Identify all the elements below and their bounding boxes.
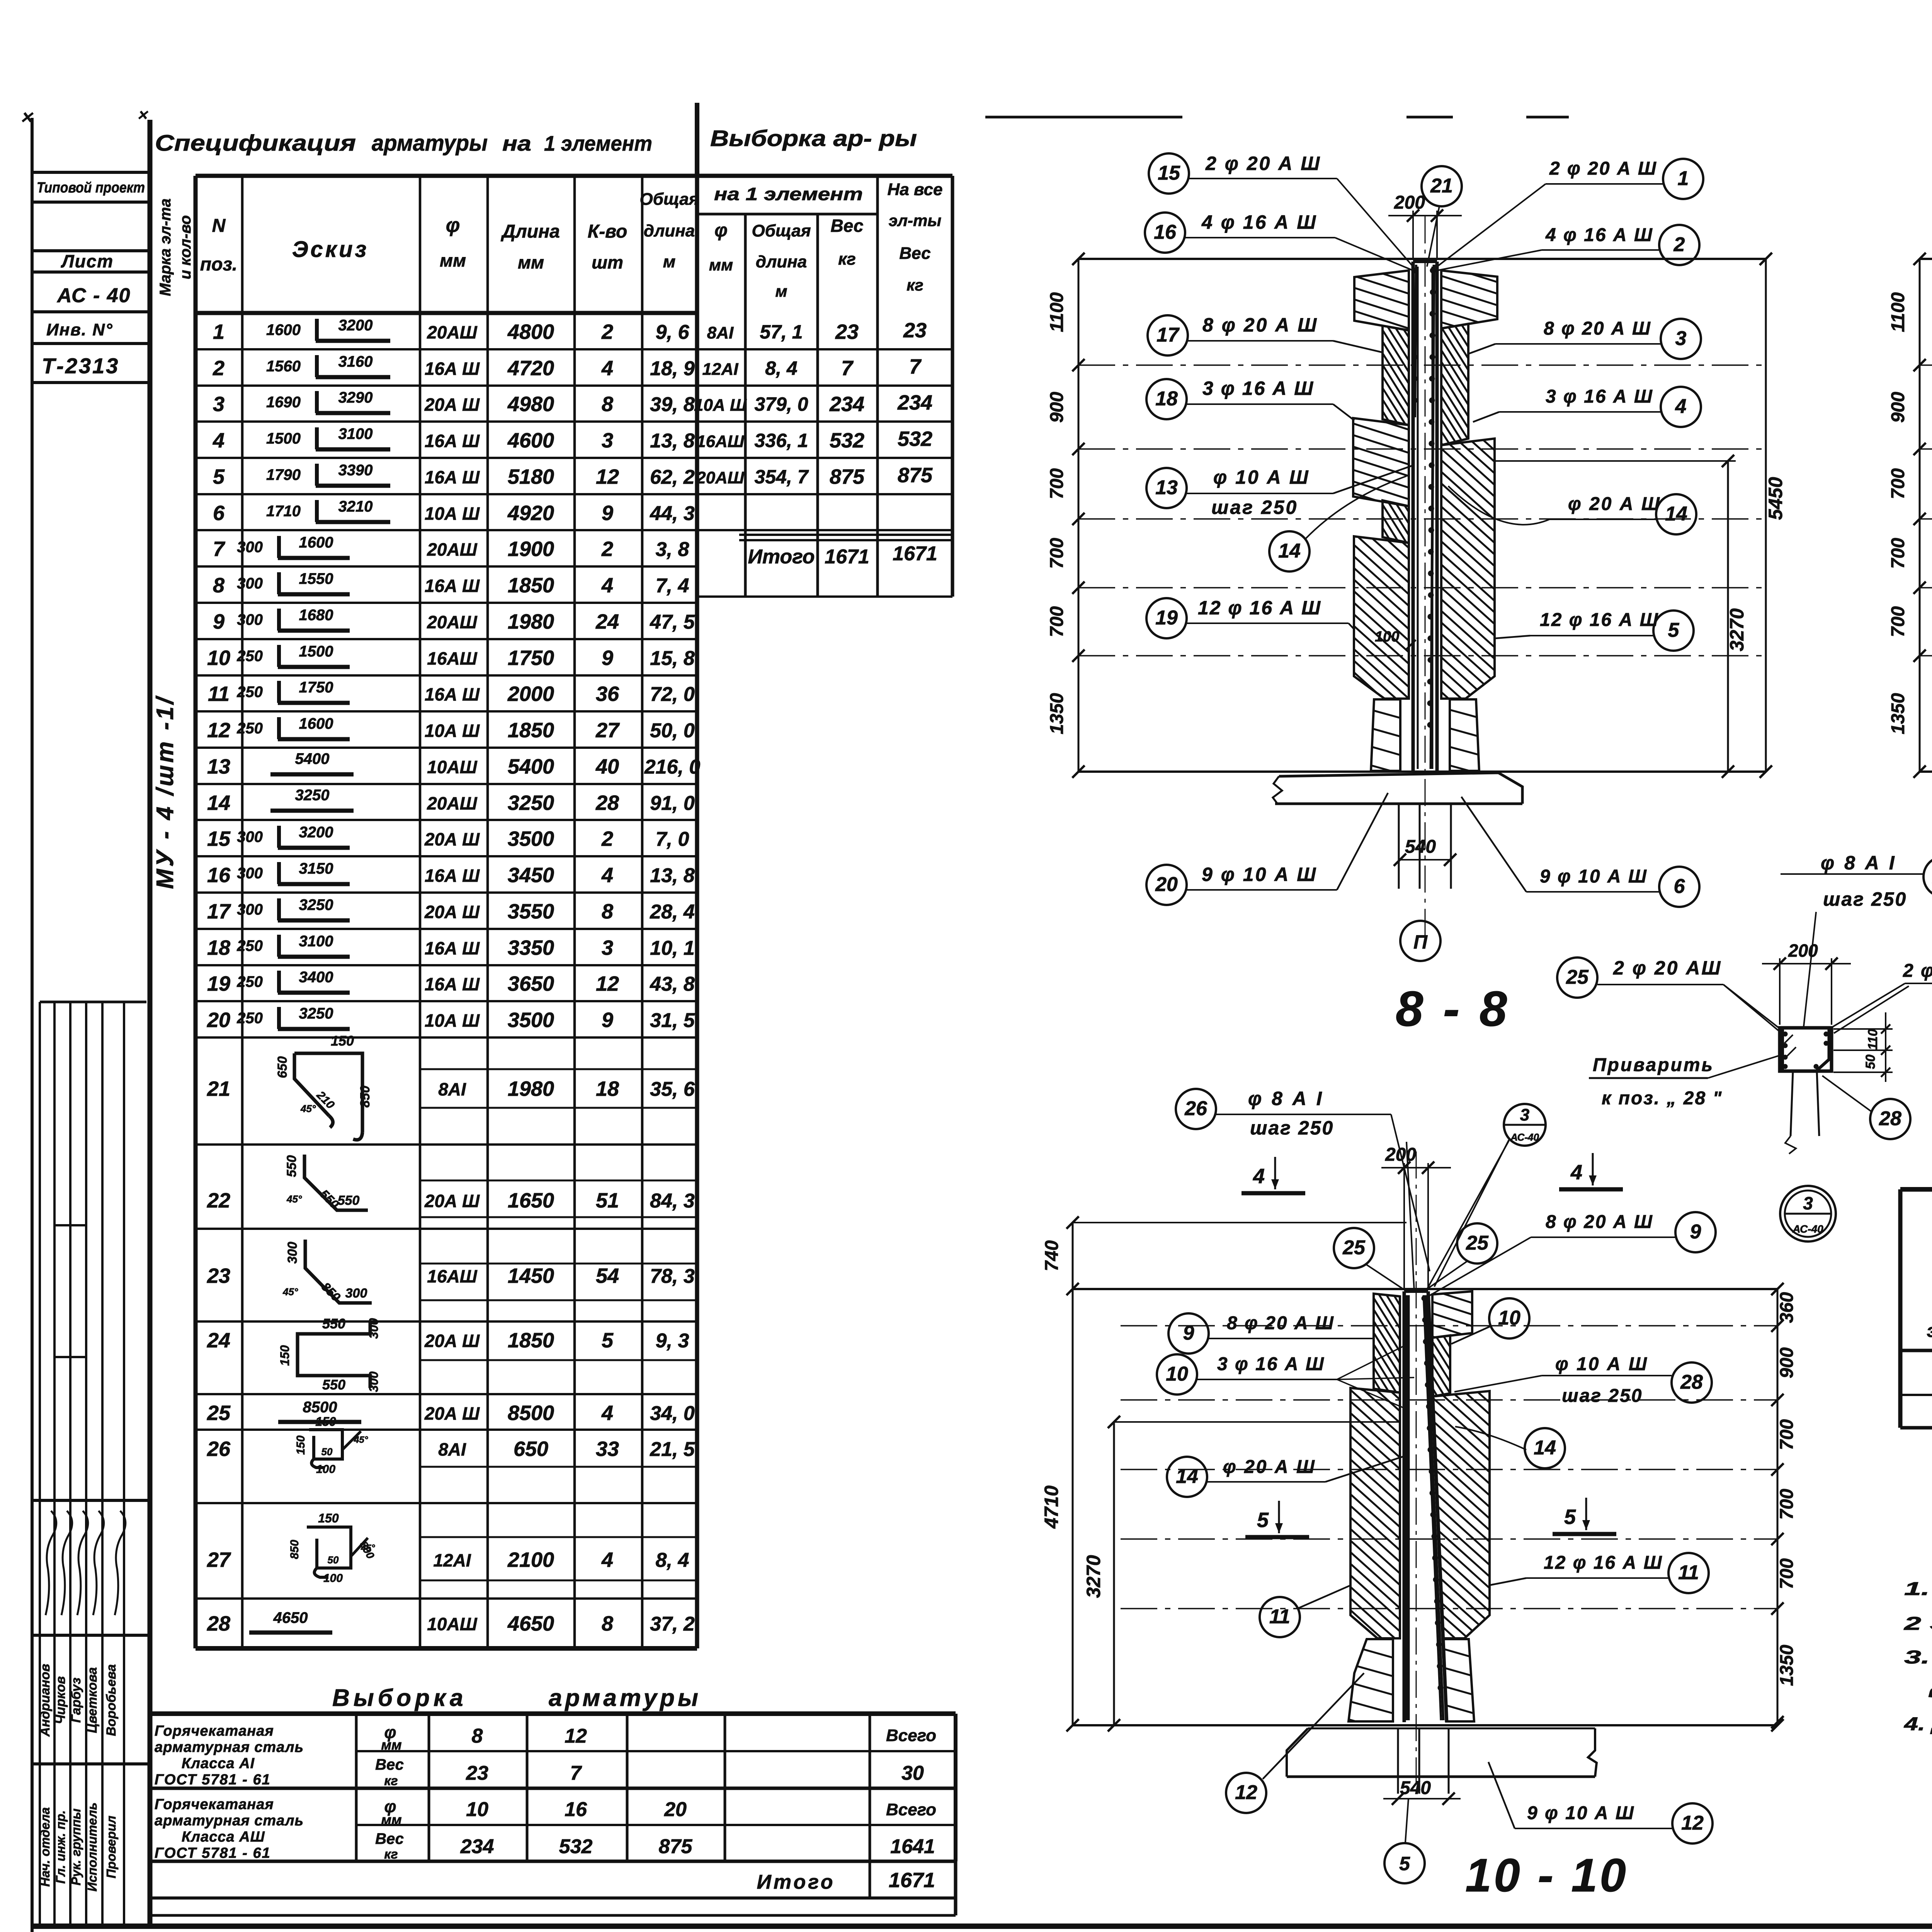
dim 200 weld [1779, 958, 1781, 1025]
svg-text:51: 51 [596, 1189, 619, 1212]
dim 3270 right [1727, 461, 1729, 772]
svg-text:кг: кг [906, 276, 923, 294]
svg-text:φ: φ [446, 214, 460, 236]
svg-text:550: 550 [338, 1193, 360, 1208]
svg-text:27: 27 [595, 719, 620, 742]
svg-text:9 φ 10 А Ш: 9 φ 10 А Ш [1527, 1803, 1635, 1823]
svg-text:532: 532 [830, 429, 864, 452]
svg-text:Класса АI: Класса АI [182, 1755, 255, 1772]
svg-text:18, 9: 18, 9 [650, 357, 695, 380]
svg-text:кг: кг [384, 1774, 398, 1788]
svg-text:16: 16 [207, 864, 231, 887]
svg-text:шт: шт [592, 252, 623, 272]
svg-text:Андрианов: Андрианов [38, 1664, 53, 1737]
svg-text:Всего: Всего [886, 1726, 936, 1745]
svg-text:Класса АШ: Класса АШ [182, 1829, 265, 1845]
svg-text:φ 10 А Ш: φ 10 А Ш [1555, 1354, 1648, 1374]
svg-text:4 φ 16 А Ш: 4 φ 16 А Ш [1545, 225, 1653, 245]
dimension chain left [1078, 259, 1080, 772]
bottom boundary line [1078, 770, 1766, 773]
svg-text:шаг 250: шаг 250 [1562, 1386, 1643, 1406]
svg-text:1850: 1850 [508, 719, 554, 742]
left dims 10-10 [1072, 1223, 1074, 1725]
svg-text:354, 7: 354, 7 [754, 466, 809, 488]
svg-text:300: 300 [237, 828, 263, 845]
svg-text:18: 18 [1155, 388, 1178, 410]
svg-text:арматурная сталь: арматурная сталь [155, 1813, 304, 1829]
svg-text:900: 900 [1777, 1347, 1797, 1378]
svg-text:13, 8: 13, 8 [650, 864, 695, 887]
top fan leaders [1337, 179, 1413, 267]
svg-text:1671: 1671 [889, 1869, 935, 1892]
svg-text:40: 40 [595, 755, 619, 778]
svg-text:2 φ 20 АШ: 2 φ 20 АШ [1613, 957, 1722, 979]
svg-text:1710: 1710 [266, 503, 301, 520]
svg-text:8 - 8: 8 - 8 [1396, 981, 1510, 1037]
svg-text:850: 850 [358, 1086, 372, 1108]
svg-text:30: 30 [901, 1762, 924, 1784]
svg-text:13: 13 [207, 755, 230, 778]
svg-text:540: 540 [1400, 1778, 1431, 1798]
svg-text:длина: длина [756, 252, 807, 271]
svg-text:на 1 элемент: на 1 элемент [714, 184, 863, 204]
svg-text:3250: 3250 [295, 787, 330, 804]
big flag 3/AC-40 [1780, 1186, 1836, 1242]
svg-text:875: 875 [830, 465, 865, 488]
svg-text:9: 9 [602, 646, 613, 670]
svg-text:31, 5: 31, 5 [650, 1009, 695, 1032]
svg-text:8: 8 [213, 574, 224, 597]
svg-text:2 φ 20 А Ш: 2 φ 20 А Ш [1903, 961, 1932, 981]
svg-text:27: 27 [207, 1548, 231, 1571]
svg-text:7: 7 [909, 355, 922, 378]
svg-text:12 φ 16 А Ш: 12 φ 16 А Ш [1198, 597, 1321, 619]
svg-text:300: 300 [237, 865, 263, 882]
svg-text:11: 11 [1678, 1561, 1699, 1584]
svg-text:5: 5 [1668, 619, 1680, 641]
svg-text:мм: мм [381, 1812, 401, 1828]
svg-text:элемента: элемента [1927, 1321, 1932, 1341]
svg-text:25: 25 [207, 1401, 231, 1425]
svg-text:700: 700 [1777, 1489, 1797, 1520]
svg-text:8500: 8500 [303, 1399, 337, 1416]
svg-text:1550: 1550 [299, 570, 333, 587]
svg-text:Горячекатаная: Горячекатаная [155, 1796, 274, 1813]
svg-text:650: 650 [514, 1437, 548, 1461]
svg-text:3500: 3500 [508, 827, 554, 850]
svg-text:20А Ш: 20А Ш [424, 902, 480, 922]
svg-text:2 Защитный слой: 2 Защитный слой бетона - 25 мм. [1903, 1614, 1932, 1634]
svg-text:216, 0: 216, 0 [644, 756, 701, 778]
svg-text:2100: 2100 [507, 1548, 554, 1571]
svg-text:мм: мм [381, 1737, 401, 1753]
svg-text:14: 14 [1534, 1437, 1556, 1459]
svg-text:Всего: Всего [886, 1800, 936, 1819]
svg-text:300: 300 [237, 611, 263, 628]
svg-text:Лист: Лист [61, 251, 114, 271]
svg-text:Длина: Длина [500, 221, 560, 242]
svg-text:15: 15 [207, 827, 231, 850]
svg-text:45°: 45° [282, 1286, 298, 1298]
svg-text:23: 23 [466, 1762, 488, 1784]
svg-text:МУ - 4 /шт -1/: МУ - 4 /шт -1/ [152, 695, 179, 889]
callouts right [1663, 159, 1703, 199]
svg-text:Вес: Вес [375, 1756, 404, 1773]
svg-text:12: 12 [1681, 1812, 1704, 1834]
svg-text:5450: 5450 [1765, 477, 1786, 520]
svg-text:3: 3 [1520, 1105, 1529, 1124]
svg-text:21: 21 [1430, 175, 1453, 197]
svg-text:11: 11 [208, 682, 230, 706]
svg-text:Нач. отдела: Нач. отдела [38, 1807, 52, 1887]
svg-text:кг: кг [384, 1847, 398, 1862]
svg-text:234: 234 [829, 393, 864, 416]
svg-text:Вес: Вес [831, 216, 864, 236]
svg-text:110: 110 [1866, 1029, 1880, 1050]
svg-text:3 φ 16 А Ш: 3 φ 16 А Ш [1217, 1354, 1325, 1374]
svg-text:34, 0: 34, 0 [650, 1402, 695, 1425]
dim chain right 10-10 [1777, 1289, 1779, 1722]
svg-text:360: 360 [1777, 1292, 1797, 1323]
svg-text:26: 26 [1184, 1097, 1207, 1120]
svg-text:Выборка: Выборка [332, 1685, 467, 1711]
svg-text:3250: 3250 [508, 791, 554, 815]
svg-text:300: 300 [367, 1318, 381, 1339]
svg-text:3: 3 [1803, 1193, 1813, 1213]
svg-text:3250: 3250 [299, 1005, 333, 1022]
left stamp boxes [32, 171, 150, 174]
svg-text:550: 550 [322, 1377, 345, 1393]
svg-text:9, 3: 9, 3 [656, 1330, 689, 1352]
svg-text:мм: мм [440, 250, 466, 270]
svg-text:12АI: 12АI [702, 360, 739, 379]
svg-text:21: 21 [207, 1077, 230, 1100]
svg-text:36: 36 [596, 682, 619, 706]
svg-text:Общая: Общая [752, 221, 811, 240]
svg-text:9, 6: 9, 6 [656, 321, 690, 344]
svg-text:20АШ: 20АШ [427, 322, 477, 342]
svg-text:1500: 1500 [266, 430, 301, 447]
svg-text:550: 550 [284, 1155, 299, 1177]
svg-text:3270: 3270 [1083, 1555, 1104, 1598]
svg-text:Инв. N°: Инв. N° [46, 320, 113, 339]
svg-text:20А Ш: 20А Ш [424, 395, 480, 415]
weld detail (privarit k poz 28) [1804, 912, 1816, 1026]
svg-text:Рук. группы: Рук. группы [69, 1808, 83, 1885]
svg-text:Итого: Итого [757, 1871, 835, 1893]
svg-text:100: 100 [316, 1463, 335, 1476]
level extension lines [1078, 364, 1766, 366]
svg-text:1900: 1900 [508, 537, 554, 561]
svg-text:3200: 3200 [299, 824, 333, 841]
dim 200 top 10-10 [1403, 1163, 1405, 1289]
svg-text:4: 4 [601, 574, 613, 597]
svg-text:10: 10 [466, 1798, 488, 1821]
svg-text:44, 3: 44, 3 [650, 502, 695, 525]
svg-text:Исполнитель: Исполнитель [85, 1803, 99, 1892]
svg-text:26: 26 [207, 1437, 231, 1461]
svg-text:19: 19 [207, 972, 230, 995]
svg-text:700: 700 [1777, 1419, 1797, 1450]
svg-text:8АI: 8АI [438, 1079, 466, 1099]
column tube [1412, 262, 1415, 772]
callout 25 left [1557, 957, 1597, 998]
svg-text:1600: 1600 [266, 321, 301, 338]
svg-text:Спецификация: Спецификация [155, 131, 356, 156]
svg-text:150: 150 [278, 1345, 292, 1366]
svg-text:15, 8: 15, 8 [650, 647, 695, 670]
svg-text:250: 250 [236, 937, 263, 954]
svg-text:20: 20 [207, 1009, 230, 1032]
svg-text:3, 8: 3, 8 [656, 538, 689, 561]
svg-text:10: 10 [207, 646, 230, 670]
svg-text:23: 23 [835, 320, 859, 344]
svg-text:φ: φ [714, 220, 728, 241]
svg-text:Итого: Итого [748, 546, 815, 568]
svg-text:16: 16 [565, 1798, 587, 1821]
svg-text:12 φ 16 А Ш: 12 φ 16 А Ш [1544, 1553, 1663, 1573]
svg-text:20: 20 [1155, 873, 1178, 896]
svg-text:8: 8 [602, 393, 613, 416]
svg-text:8: 8 [602, 900, 613, 923]
svg-text:23: 23 [903, 319, 927, 342]
svg-text:1850: 1850 [508, 1329, 554, 1352]
svg-text:650: 650 [275, 1056, 290, 1078]
svg-text:3150: 3150 [299, 860, 333, 877]
svg-text:мм: мм [518, 252, 544, 272]
svg-text:1350: 1350 [1777, 1645, 1797, 1686]
svg-text:50: 50 [1863, 1054, 1878, 1069]
svg-text:5: 5 [602, 1329, 614, 1352]
svg-text:9: 9 [213, 610, 224, 633]
svg-text:700: 700 [1777, 1558, 1797, 1589]
callout 28 [1870, 1099, 1910, 1139]
svg-text:250: 250 [236, 648, 263, 665]
svg-text:4: 4 [1253, 1165, 1265, 1188]
svg-text:850: 850 [288, 1540, 301, 1559]
dims 110/50 weld [1833, 1028, 1893, 1030]
svg-text:10: 10 [1498, 1307, 1520, 1329]
node P [1400, 921, 1440, 961]
svg-text:20А Ш: 20А Ш [424, 1191, 480, 1211]
svg-text:28, 4: 28, 4 [650, 901, 695, 923]
svg-text:13, 8: 13, 8 [650, 430, 695, 452]
svg-text:4920: 4920 [507, 502, 554, 525]
dim 200 top [1412, 211, 1414, 259]
svg-text:1650: 1650 [508, 1189, 554, 1212]
svg-text:2 φ 20 А Ш: 2 φ 20 А Ш [1549, 158, 1657, 179]
svg-text:12: 12 [596, 465, 619, 488]
svg-text:3: 3 [1675, 327, 1687, 350]
svg-text:16АШ: 16АШ [427, 648, 477, 668]
svg-text:3: 3 [213, 393, 224, 416]
dim 5450 right [1765, 259, 1767, 772]
callout 5 bottom [1405, 1799, 1408, 1842]
svg-text:19: 19 [1155, 607, 1178, 629]
svg-text:20АШ: 20АШ [427, 612, 477, 632]
svg-text:4. Длина поз. „ 3, 4,: 4. Длина поз. „ 3, 4, 5, 6 " уточняется … [1904, 1714, 1932, 1735]
svg-text:9: 9 [1183, 1322, 1194, 1344]
svg-text:длина: длина [644, 221, 695, 240]
svg-text:8, 4: 8, 4 [765, 357, 797, 379]
svg-text:арматуры: арматуры [549, 1685, 701, 1711]
svg-text:арматуры: арматуры [372, 131, 488, 156]
svg-text:3270: 3270 [1726, 608, 1748, 651]
dim chain left 9-9 [1919, 259, 1921, 772]
svg-text:3160: 3160 [338, 353, 373, 370]
svg-text:3450: 3450 [508, 864, 554, 887]
svg-text:шаг 250: шаг 250 [1250, 1117, 1334, 1139]
svg-text:эл-ты: эл-ты [889, 211, 942, 230]
svg-text:20АШ: 20АШ [427, 539, 477, 560]
svg-text:1560: 1560 [266, 358, 301, 375]
svg-text:45°: 45° [300, 1103, 316, 1114]
svg-text:379, 0: 379, 0 [754, 393, 808, 415]
svg-text:25: 25 [1566, 966, 1589, 988]
svg-text:1: 1 [1678, 167, 1689, 190]
svg-text:9: 9 [602, 502, 613, 525]
svg-text:47, 5: 47, 5 [650, 611, 695, 633]
svg-text:4710: 4710 [1041, 1485, 1062, 1529]
svg-text:22: 22 [207, 1189, 230, 1212]
svg-text:5: 5 [1399, 1853, 1410, 1874]
svg-text:12: 12 [596, 972, 619, 995]
svg-text:3 φ 16 А Ш: 3 φ 16 А Ш [1202, 378, 1314, 399]
svg-text:8: 8 [602, 1612, 613, 1635]
svg-text:9 φ 10 А Ш: 9 φ 10 А Ш [1540, 866, 1648, 887]
svg-text:33: 33 [596, 1437, 619, 1461]
svg-text:Гарбуз: Гарбуз [69, 1678, 83, 1723]
svg-text:1671: 1671 [893, 543, 937, 565]
svg-text:На все: На все [888, 180, 943, 199]
tube 10-10 [1403, 1291, 1406, 1722]
svg-text:3250: 3250 [299, 896, 333, 913]
svg-text:23: 23 [207, 1264, 230, 1287]
svg-text:1750: 1750 [508, 646, 554, 670]
svg-text:1980: 1980 [508, 1077, 554, 1100]
svg-text:300: 300 [237, 901, 263, 918]
svg-text:7: 7 [213, 537, 226, 561]
svg-text:50: 50 [321, 1446, 333, 1458]
svg-text:4: 4 [601, 357, 613, 380]
svg-text:1600: 1600 [299, 534, 333, 551]
svg-text:150: 150 [318, 1511, 339, 1525]
signatures squiggles [46, 1511, 56, 1615]
svg-text:9 φ 10 А Ш: 9 φ 10 А Ш [1202, 864, 1317, 885]
svg-text:875: 875 [898, 464, 933, 487]
footing slab [1279, 773, 1522, 804]
svg-text:1350: 1350 [1888, 693, 1908, 734]
below footing 10-10 [1397, 1728, 1399, 1794]
svg-text:7, 4: 7, 4 [656, 575, 689, 597]
svg-text:К-во: К-во [588, 221, 628, 242]
svg-text:14: 14 [1665, 503, 1687, 525]
svg-text:Приварить: Приварить [1593, 1055, 1714, 1075]
svg-text:25: 25 [1466, 1232, 1489, 1254]
svg-text:ГОСТ 5781 - 61: ГОСТ 5781 - 61 [155, 1772, 271, 1788]
svg-text:700: 700 [1047, 468, 1067, 499]
flag 3/AC-40 small [1504, 1104, 1546, 1146]
svg-text:300: 300 [345, 1286, 367, 1301]
svg-text:1750: 1750 [299, 679, 333, 696]
svg-text:18: 18 [596, 1077, 619, 1100]
svg-text:21, 5: 21, 5 [650, 1438, 695, 1461]
svg-text:39, 8: 39, 8 [650, 393, 695, 416]
svg-text:100: 100 [323, 1572, 343, 1585]
svg-text:10, 1: 10, 1 [650, 937, 695, 959]
svg-text:300: 300 [237, 539, 263, 556]
svg-text:234: 234 [897, 391, 932, 414]
svg-text:Выборка ар- ры: Выборка ар- ры [710, 126, 917, 151]
svg-text:100: 100 [1375, 629, 1399, 645]
svg-text:9: 9 [1690, 1221, 1701, 1243]
svg-text:700: 700 [1888, 606, 1908, 637]
svg-text:16А Ш: 16А Ш [425, 467, 480, 487]
svg-text:3390: 3390 [338, 462, 373, 479]
svg-text:Проверил: Проверил [104, 1816, 118, 1878]
svg-text:5: 5 [1257, 1509, 1269, 1532]
svg-text:12АI: 12АI [433, 1550, 471, 1570]
top boundary line [1078, 258, 1766, 260]
svg-text:14: 14 [207, 791, 230, 815]
svg-text:17: 17 [1156, 324, 1180, 346]
signature columns [40, 1001, 146, 1003]
svg-text:Типовой проект: Типовой проект [37, 180, 145, 196]
svg-text:37, 2: 37, 2 [650, 1613, 695, 1635]
svg-text:45°: 45° [354, 1435, 368, 1445]
svg-text:5: 5 [1564, 1505, 1576, 1529]
svg-text:700: 700 [1888, 468, 1908, 499]
svg-text:10 - 10: 10 - 10 [1465, 1849, 1628, 1901]
svg-text:10А Ш: 10А Ш [425, 721, 480, 741]
svg-text:Т-2313: Т-2313 [42, 354, 119, 378]
svg-text:43, 8: 43, 8 [650, 973, 695, 995]
svg-text:1980: 1980 [508, 610, 554, 633]
svg-text:550: 550 [322, 1316, 345, 1332]
svg-text:3: 3 [602, 429, 613, 452]
svg-text:12 φ 16 А Ш: 12 φ 16 А Ш [1540, 610, 1659, 630]
svg-text:16А Ш: 16А Ш [425, 684, 480, 704]
svg-text:5400: 5400 [508, 755, 554, 778]
svg-text:10АШ: 10АШ [427, 757, 477, 777]
svg-text:875: 875 [659, 1835, 693, 1858]
svg-text:14: 14 [1176, 1465, 1198, 1488]
svg-text:П: П [1413, 931, 1428, 953]
svg-text:45°: 45° [286, 1193, 302, 1205]
svg-text:28: 28 [595, 791, 619, 815]
svg-text:16: 16 [1154, 221, 1177, 243]
svg-text:на: на [502, 131, 531, 155]
svg-text:1 элемент: 1 элемент [544, 131, 652, 155]
svg-text:17: 17 [207, 900, 231, 923]
svg-text:5: 5 [213, 465, 225, 488]
svg-text:250: 250 [236, 1010, 263, 1027]
svg-text:φ 8 А I: φ 8 А I [1248, 1088, 1324, 1109]
svg-text:16А Ш: 16А Ш [425, 938, 480, 958]
svg-text:Чирков: Чирков [53, 1676, 68, 1724]
svg-text:поз.: поз. [200, 254, 237, 275]
svg-text:14: 14 [1278, 540, 1301, 562]
svg-text:700: 700 [1047, 538, 1067, 569]
svg-text:250: 250 [236, 720, 263, 737]
svg-text:84, 3: 84, 3 [650, 1190, 695, 1212]
svg-text:12: 12 [207, 719, 230, 742]
svg-text:и кол-во: и кол-во [177, 215, 194, 279]
svg-text:150: 150 [315, 1415, 336, 1429]
svg-text:4: 4 [213, 429, 224, 452]
svg-text:к поз. „ 28 ": к поз. „ 28 " [1602, 1088, 1723, 1109]
svg-text:3210: 3210 [338, 498, 373, 515]
